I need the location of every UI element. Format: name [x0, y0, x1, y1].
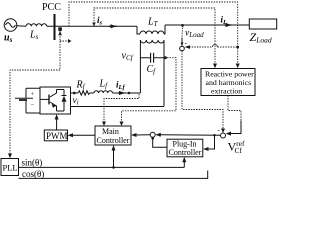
svg-text:vCf: vCf	[122, 51, 134, 63]
secondary right lead down to return corner	[163, 40, 165, 107]
capacitor C_f wire	[140, 57, 165, 59]
left circle bottom junction dot	[151, 137, 154, 140]
svg-text:sin(θ): sin(θ)	[22, 158, 43, 168]
DC source long plate	[15, 97, 33, 99]
svg-text:Lf: Lf	[99, 79, 109, 91]
DC source short plate	[19, 99, 27, 101]
i_L current arrow	[224, 24, 232, 26]
svg-text:Rf: Rf	[76, 80, 86, 92]
svg-text:PCC: PCC	[42, 2, 61, 13]
IGBT gate lead	[40, 98, 49, 100]
V_Cf ref feed wire	[229, 121, 242, 134]
svg-text:Controller: Controller	[97, 136, 130, 145]
AC source u_s	[4, 19, 17, 32]
secondary left lead down to node A	[139, 40, 141, 93]
svg-text:extraction: extraction	[211, 87, 242, 96]
v_Load probe circle	[180, 46, 185, 51]
IGBT gate bar	[48, 95, 50, 105]
svg-text:VrefCf: VrefCf	[228, 139, 245, 155]
return wire to inverter	[71, 106, 165, 108]
wire R_f to L_f	[90, 92, 94, 94]
svg-text:ZLoad: ZLoad	[250, 30, 272, 45]
sensor up-arrow below PCC square	[58, 31, 62, 35]
freewheel diode D	[62, 90, 67, 112]
node A dot	[128, 92, 131, 95]
svg-text:-: -	[185, 39, 188, 47]
arrow into right circle right	[226, 132, 231, 136]
small arrow on PCC branch	[68, 39, 72, 43]
i_Lf line to Main Controller	[104, 94, 139, 122]
dashed measurement lines	[10, 2, 241, 155]
Plug-In Controller box	[167, 139, 203, 157]
outer top bus (v_PCC to extraction box)	[69, 2, 238, 65]
capacitor C_f plates	[151, 53, 154, 63]
Reactive power box	[201, 69, 255, 96]
arrow into v_Load circle	[185, 45, 191, 49]
branch junction to plug-in input	[207, 135, 215, 149]
sin line	[19, 166, 185, 168]
left circle to MC arrow	[135, 134, 151, 136]
svg-text:Cf: Cf	[147, 64, 157, 76]
wire L_f to node A	[112, 92, 140, 94]
plug-in output path	[153, 138, 167, 147]
arrow into extraction box (left)	[213, 64, 217, 69]
inverter box	[40, 87, 71, 114]
arrow into right circle top	[221, 129, 225, 134]
PCC sensor square	[58, 27, 62, 31]
i_s current arrow	[109, 25, 117, 27]
v_Load junction dot	[181, 24, 184, 27]
v_Load probe arrow	[181, 38, 183, 46]
arrow into Main Controller top left	[102, 122, 106, 127]
arrow into Main Controller top right	[120, 122, 124, 127]
hop over inner bus on v_Load line	[213, 45, 218, 47]
inductor L_f	[94, 91, 112, 93]
arrow into PLL top	[8, 154, 12, 159]
sin junction dot	[112, 166, 115, 169]
v_Load line down to right summing circle	[182, 51, 223, 130]
wire L_s to PCC	[47, 25, 137, 27]
Z_Load box	[249, 19, 276, 29]
i_Lf current arrow	[118, 92, 125, 94]
left summing circle	[150, 132, 155, 137]
svg-text:-: -	[218, 125, 221, 134]
Main Controller box	[95, 126, 131, 145]
transformer primary L_T	[137, 26, 140, 34]
svg-text:PLL: PLL	[3, 163, 18, 173]
extraction box output to summing circle	[228, 96, 241, 122]
svg-text:iLf: iLf	[116, 80, 125, 92]
IGBT collector/emitter	[50, 90, 57, 112]
inverter DC source top lead	[26, 88, 40, 113]
svg-text:+: +	[31, 91, 35, 98]
svg-text:−: −	[31, 102, 35, 109]
svg-text:vLoad: vLoad	[185, 29, 204, 40]
svg-text:Main: Main	[102, 127, 119, 136]
v_i junction dot	[73, 92, 76, 95]
PCC bus bar	[54, 14, 56, 40]
arrow into extraction box (right)	[236, 64, 240, 69]
plug-in bottom input arrow	[183, 160, 185, 167]
branch junction dot	[213, 134, 215, 136]
svg-text:iL: iL	[221, 15, 228, 27]
transformer secondary winding	[140, 40, 164, 43]
PWM to inverter arrow	[56, 118, 58, 131]
svg-text:us: us	[4, 33, 13, 45]
error wire right circle to left circle	[159, 134, 220, 136]
svg-text:PWM: PWM	[46, 131, 68, 141]
svg-text:is: is	[97, 15, 103, 27]
PCC sensor down line	[10, 31, 60, 155]
svg-text:vi: vi	[73, 96, 79, 107]
v_Cf line to Main Controller	[122, 58, 177, 122]
right summing circle	[221, 133, 226, 138]
wire source to L_s	[17, 25, 26, 28]
MC bottom input arrow	[113, 149, 115, 168]
svg-text:Controller: Controller	[169, 148, 202, 157]
resistor R_f	[78, 91, 90, 95]
branch to the right at y=41	[60, 40, 70, 42]
wire-dot to probe dashed link	[181, 28, 184, 37]
inductor L_s	[26, 24, 47, 27]
cos line	[19, 171, 208, 179]
svg-text:Ls: Ls	[29, 30, 39, 42]
v_Load to extraction box line with hop	[187, 46, 238, 48]
svg-text:LT: LT	[147, 17, 159, 29]
v_Cf junction dot	[164, 56, 167, 59]
i_s tap arrow	[92, 23, 95, 27]
PWM box	[44, 130, 67, 141]
PLL box	[1, 159, 19, 176]
inverter output wire	[71, 92, 79, 94]
internal rails	[57, 90, 65, 112]
MC to PWM arrow	[71, 134, 95, 136]
inner top bus (i_s to extraction box)	[94, 8, 215, 65]
svg-text:cos(θ): cos(θ)	[22, 169, 44, 179]
junction dot v_Load/outer bus	[236, 46, 239, 49]
wire transformer to load	[165, 24, 249, 26]
